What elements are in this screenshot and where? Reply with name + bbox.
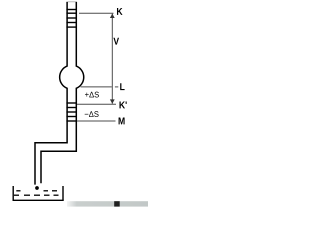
arrowhead down at K' [110, 99, 115, 103]
drop dot at tube outlet [35, 186, 39, 190]
burette tube left wall with bulb left arc [35, 2, 67, 185]
label K' [119, 102, 126, 109]
liquid dashes row 2 [14, 194, 59, 196]
L dash [115, 86, 118, 88]
beaker right wall [62, 186, 64, 200]
label +dS [85, 92, 99, 98]
top graduation ticks [66, 10, 77, 28]
M level line [77, 120, 116, 122]
L level line [81, 86, 112, 88]
arrowhead up at K [110, 14, 115, 18]
dimension line V [111, 14, 113, 104]
lower graduation ticks (K' to M) [66, 103, 77, 121]
beaker left wall [12, 186, 14, 200]
label -dS [85, 111, 99, 117]
label M [119, 118, 125, 125]
beaker bottom [13, 199, 64, 201]
label L [120, 83, 124, 90]
label V [113, 38, 119, 45]
tube top opening cap [66, 1, 77, 3]
K level line [79, 12, 114, 14]
label K [117, 8, 123, 15]
burette tube right wall with bulb right arc [41, 2, 84, 183]
liquid dashes row 1 [16, 190, 57, 192]
K' level line [77, 103, 116, 105]
scrollbar thumb [114, 201, 120, 206]
